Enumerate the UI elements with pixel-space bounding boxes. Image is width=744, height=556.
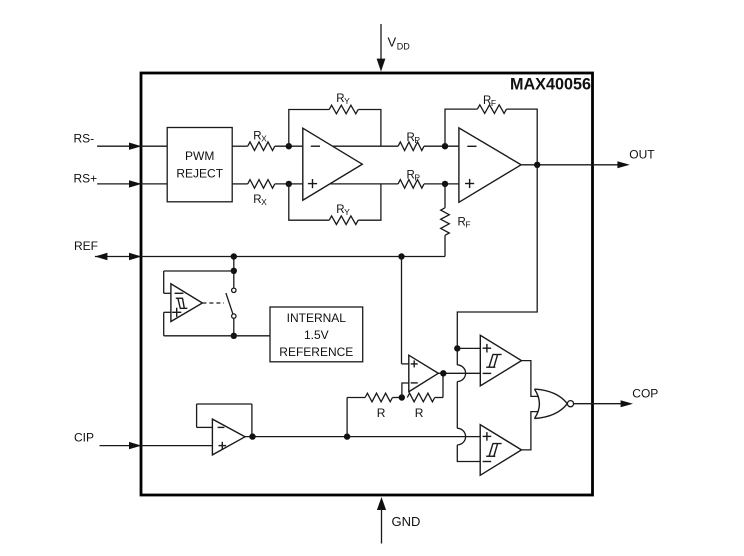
svg-text:R: R [415, 406, 424, 420]
svg-text:F: F [465, 219, 470, 229]
svg-text:PWM: PWM [185, 149, 214, 163]
svg-text:RS+: RS+ [74, 172, 98, 186]
svg-text:1.5V: 1.5V [304, 328, 329, 342]
svg-text:P: P [414, 172, 420, 182]
svg-text:OUT: OUT [629, 148, 655, 162]
svg-text:R: R [377, 406, 386, 420]
svg-text:X: X [261, 197, 267, 207]
svg-text:REF: REF [74, 239, 98, 253]
svg-text:GND: GND [392, 514, 421, 529]
svg-text:P: P [414, 135, 420, 145]
svg-text:X: X [261, 133, 267, 143]
svg-text:Y: Y [344, 96, 350, 106]
svg-text:F: F [491, 98, 496, 108]
svg-text:MAX40056: MAX40056 [510, 76, 591, 94]
svg-text:DD: DD [397, 42, 410, 52]
svg-text:REJECT: REJECT [176, 167, 223, 181]
svg-text:CIP: CIP [74, 431, 94, 445]
svg-text:RS-: RS- [74, 132, 95, 146]
svg-text:COP: COP [632, 387, 658, 401]
svg-text:INTERNAL: INTERNAL [287, 311, 347, 325]
svg-text:Y: Y [344, 207, 350, 217]
svg-text:REFERENCE: REFERENCE [279, 345, 353, 359]
svg-text:V: V [388, 35, 397, 50]
